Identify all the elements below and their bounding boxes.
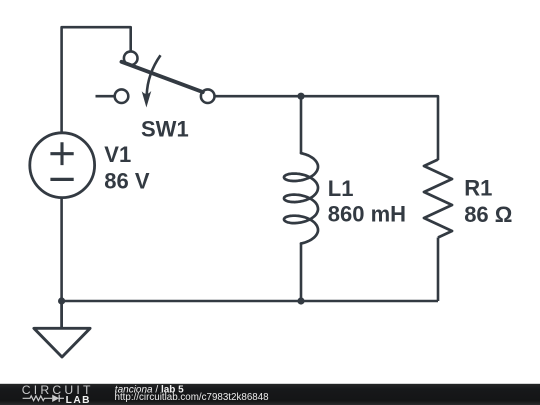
- node junction bottom rail / L1 tap: [297, 297, 304, 304]
- footer url text: [115, 392, 270, 403]
- label R1: [464, 176, 492, 201]
- value 86 V: [104, 169, 150, 194]
- wire junction to L1 top: [300, 96, 303, 153]
- svg-text:R1: R1: [464, 176, 492, 201]
- svg-text:86 Ω: 86 Ω: [464, 202, 512, 227]
- wire R1 bottom to bottom rail: [437, 238, 440, 302]
- actuation arc arrow: [142, 55, 161, 107]
- svg-text:860 mH: 860 mH: [328, 202, 406, 227]
- logo resistor + diode wire: [23, 395, 64, 402]
- wire SW1 left throw stub: [96, 95, 115, 98]
- svg-text:86 V: 86 V: [104, 169, 150, 194]
- resistor R1: [424, 160, 452, 238]
- wire bottom rail: [62, 300, 438, 303]
- pin circle right pole: [201, 89, 215, 103]
- label SW1: [141, 117, 189, 142]
- wire V1 bottom to ground junction: [60, 199, 63, 302]
- node junction ground / bottom rail: [58, 297, 65, 304]
- value 86 Ohm: [464, 202, 512, 227]
- svg-text:SW1: SW1: [141, 117, 189, 142]
- value 860 mH: [328, 202, 406, 227]
- switch SW1: [115, 51, 215, 107]
- plus sign: [50, 142, 73, 165]
- footer bar: [0, 384, 540, 405]
- svg-text:LAB: LAB: [66, 395, 91, 405]
- label V1: [104, 142, 131, 167]
- footer CircuitLab logo: [22, 383, 94, 405]
- ground: [34, 301, 90, 357]
- inductor L1: [284, 153, 318, 243]
- wire V1 top to SW1 top terminal: [62, 27, 131, 132]
- minus sign: [50, 178, 73, 181]
- wire L1 bottom to bottom rail: [300, 244, 303, 302]
- voltage source V1: [30, 133, 95, 198]
- svg-text:L1: L1: [328, 176, 354, 201]
- wire SW1 right terminal to R1 top (top rail): [215, 96, 438, 160]
- svg-text:http://circuitlab.com/c7983t2k: http://circuitlab.com/c7983t2k86848: [115, 392, 270, 403]
- pin circle left throw: [115, 89, 129, 103]
- svg-text:V1: V1: [104, 142, 131, 167]
- label L1: [328, 176, 354, 201]
- node junction top rail / L1 tap: [297, 93, 304, 100]
- pin circle top terminal: [124, 51, 138, 65]
- switch arm bar: [122, 62, 203, 92]
- footer title text: [115, 385, 184, 396]
